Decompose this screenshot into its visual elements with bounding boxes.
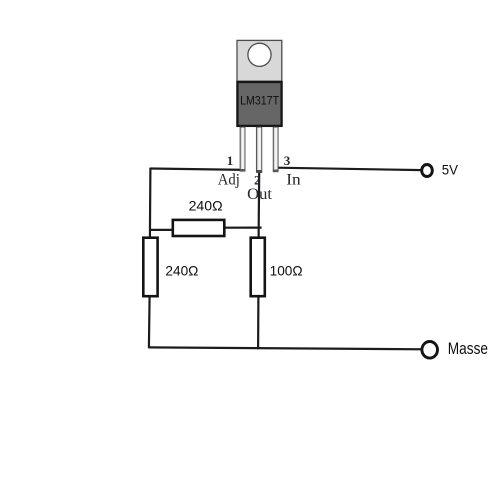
wire pin1 to left bend — [150, 169, 245, 170]
value label 240Ω of R2 — [165, 264, 198, 279]
U1 leg pin 2 (Out) — [256, 127, 261, 172]
U1 leg pin 1 (Adj) — [240, 127, 245, 171]
resistor R1 240Ω horizontal — [173, 220, 225, 236]
wire R1 right to Out node — [224, 227, 262, 229]
svg-text:240Ω: 240Ω — [165, 264, 198, 279]
U1 mounting hole — [248, 43, 271, 66]
net label 5V — [442, 162, 459, 178]
wire branch to R1 left — [150, 229, 175, 231]
wire below R2 to ground — [148, 296, 151, 348]
value label 240Ω of R1 — [189, 199, 223, 214]
svg-text:1: 1 — [227, 153, 234, 168]
svg-text:100Ω: 100Ω — [270, 264, 303, 279]
wire ground rail to Masse — [148, 347, 424, 349]
U1 leg pin 2 end cap — [256, 170, 261, 173]
pin number 2 — [254, 173, 261, 188]
svg-text:3: 3 — [284, 153, 291, 168]
value label 100Ω of R3 — [270, 264, 303, 279]
U1 body — [237, 82, 281, 126]
U1 leg pin 3 (In) — [273, 127, 278, 172]
resistor R3 100Ω right vertical — [251, 238, 265, 297]
pin name Out — [247, 186, 272, 203]
regulator U1 LM317T tab — [237, 40, 282, 81]
resistor R2 240Ω left vertical — [143, 238, 157, 297]
pin name In — [286, 172, 300, 189]
svg-text:240Ω: 240Ω — [189, 199, 223, 214]
svg-text:In: In — [286, 172, 300, 189]
wire pin3 to 5V — [277, 168, 423, 170]
wire left vertical (Adj node down) — [149, 168, 152, 239]
svg-text:5V: 5V — [442, 162, 459, 178]
net label Masse — [448, 340, 488, 358]
pin number 1 — [227, 153, 234, 168]
U1 leg pin 1 end cap — [240, 169, 245, 172]
pin name Adj — [218, 172, 240, 189]
wire Out vertical from pin2 — [258, 171, 261, 239]
wire below R3 to ground — [257, 296, 259, 349]
U1 leg pin 3 end cap — [273, 170, 278, 173]
svg-text:Out: Out — [247, 186, 272, 203]
svg-text:LM317T: LM317T — [240, 93, 279, 107]
terminal Masse circle — [422, 342, 438, 359]
U1 label LM317T — [240, 93, 279, 107]
svg-text:Masse: Masse — [448, 340, 488, 358]
pin number 3 — [284, 153, 291, 168]
svg-text:Adj: Adj — [218, 172, 240, 189]
terminal 5V circle — [422, 165, 433, 177]
